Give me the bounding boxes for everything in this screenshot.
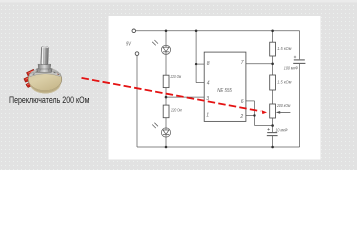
svg-text:2: 2: [239, 114, 243, 120]
svg-text:1.5 кОм: 1.5 кОм: [277, 80, 291, 85]
svg-text:1.5 кОм: 1.5 кОм: [277, 46, 291, 51]
svg-text:1: 1: [206, 113, 209, 119]
svg-text:100 мкФ: 100 мкФ: [284, 65, 299, 70]
svg-text:7: 7: [241, 60, 244, 66]
svg-text:10 мкФ: 10 мкФ: [275, 128, 288, 133]
svg-text:220 Ом: 220 Ом: [170, 107, 181, 112]
svg-text:4: 4: [207, 80, 210, 86]
svg-text:220 Ом: 220 Ом: [170, 74, 181, 79]
svg-text:8: 8: [207, 61, 210, 67]
svg-text:NE 555: NE 555: [217, 88, 232, 94]
svg-text:9V: 9V: [126, 41, 131, 47]
svg-text:6: 6: [241, 99, 244, 105]
svg-text:200 кОм: 200 кОм: [276, 103, 290, 108]
